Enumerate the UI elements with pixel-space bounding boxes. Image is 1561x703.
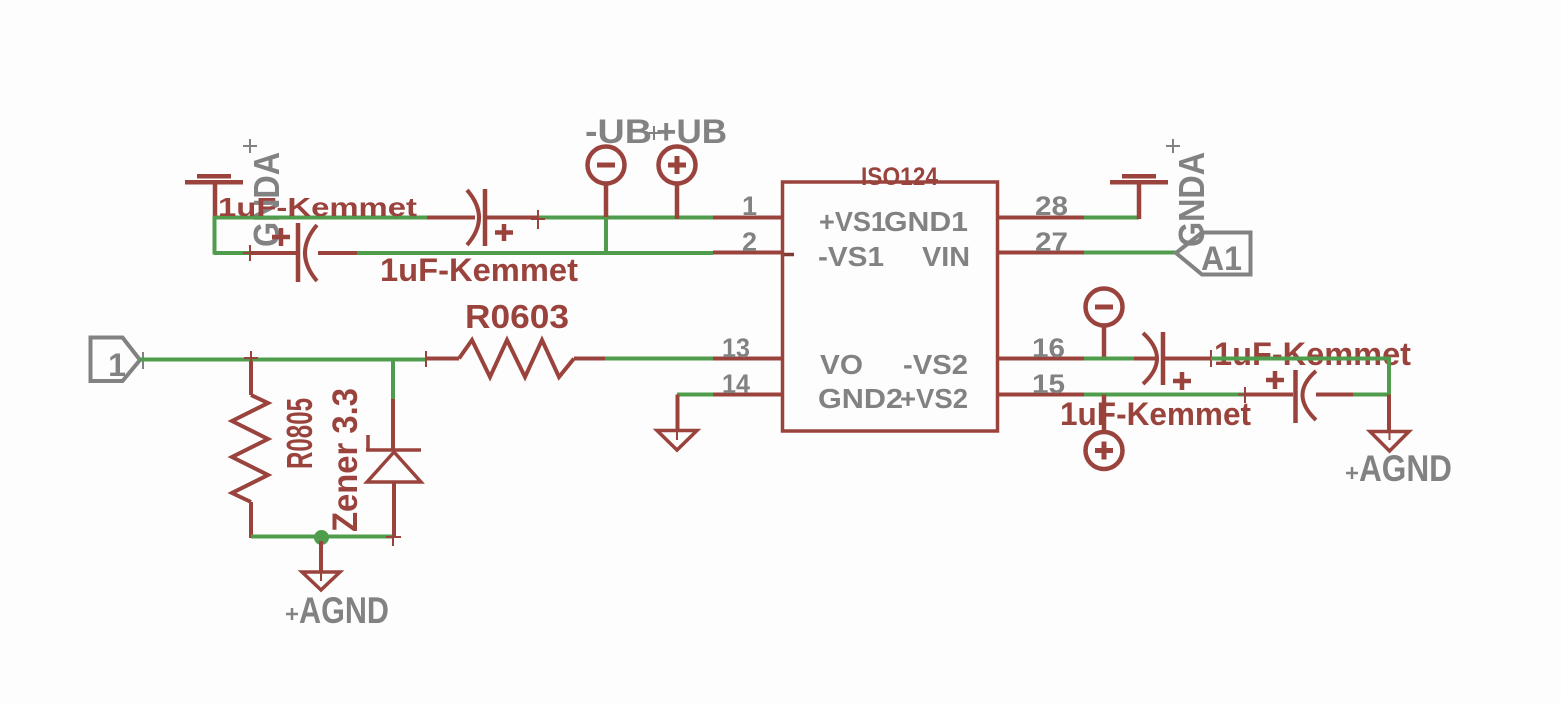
capacitor C2 origin cross	[243, 245, 257, 261]
supply plus symbol (right)	[1086, 395, 1123, 470]
capacitor C1 origin cross	[531, 210, 545, 229]
ground AGND left	[302, 541, 340, 590]
svg-text:14: 14	[722, 369, 750, 399]
wire bottom-left horizontal	[214, 251, 250, 255]
svg-text:AGND: AGND	[299, 590, 389, 631]
svg-text:1uF-Kemmet: 1uF-Kemmet	[218, 192, 417, 222]
svg-text:13: 13	[722, 333, 750, 363]
svg-text:1: 1	[742, 191, 757, 221]
svg-text:+VS1: +VS1	[819, 206, 886, 237]
supply +UB symbol	[659, 147, 696, 220]
supply -UB symbol	[588, 147, 625, 220]
svg-text:ISO124: ISO124	[861, 163, 938, 191]
svg-text:VIN: VIN	[922, 241, 970, 272]
pin 2 stub	[713, 251, 782, 255]
capacitor C4 origin cross	[1238, 387, 1252, 403]
GNDA left origin cross	[243, 139, 257, 153]
pin 16 stub	[998, 357, 1084, 361]
wire pin 14 short green	[677, 393, 713, 397]
AGND left origin cross	[286, 608, 298, 620]
op-amp U1 ISO124 body	[783, 182, 998, 431]
svg-text:2: 2	[742, 227, 757, 257]
input flag origin tick	[142, 352, 144, 369]
wire pin 16 green right	[1211, 357, 1391, 361]
R0805 origin cross	[244, 351, 258, 366]
input flag 1	[91, 338, 141, 382]
pin 27 stub	[998, 251, 1084, 255]
svg-text:1uF-Kemmet: 1uF-Kemmet	[1214, 336, 1411, 372]
svg-text:+UB: +UB	[656, 113, 727, 151]
zener origin cross	[386, 529, 401, 546]
wire pin 15 green left	[1084, 393, 1245, 397]
svg-text:-UB: -UB	[585, 113, 652, 151]
wire zener top vertical	[391, 358, 395, 400]
U1 origin dash on pin2 row	[784, 253, 794, 257]
svg-text:R0603: R0603	[465, 298, 569, 335]
wire -UB vertical	[604, 217, 608, 255]
R0603 origin cross	[425, 351, 427, 367]
output flag A1	[1176, 233, 1251, 275]
wire pin 27 to flag A1	[1084, 251, 1176, 255]
svg-text:AGND: AGND	[1359, 448, 1452, 489]
capacitor C1 (top, polarized)	[427, 189, 539, 246]
resistor R1 R0603	[426, 340, 605, 377]
AGND right origin cross	[1346, 467, 1358, 479]
capacitor C3 origin cross	[1204, 350, 1218, 367]
svg-text:1uF-Kemmet: 1uF-Kemmet	[1060, 396, 1251, 432]
svg-text:15: 15	[1032, 369, 1065, 399]
wire bottom (-VS1 net to pin 2)	[357, 251, 713, 255]
svg-text:-VS2: -VS2	[903, 349, 968, 380]
svg-text:R0805: R0805	[279, 398, 320, 469]
wire main input horizontal	[140, 358, 426, 362]
pin 1 stub	[713, 216, 782, 220]
pin 13 stub	[713, 357, 782, 361]
junction dot	[314, 530, 329, 545]
svg-text:+VS2: +VS2	[900, 383, 968, 414]
wire pin 16 green left	[1084, 357, 1134, 361]
capacitor C4 (bottom-right, polarized)	[1245, 370, 1353, 423]
svg-text:VO: VO	[820, 349, 863, 380]
wire R0603 to pin 13	[605, 357, 713, 361]
wire right vertical	[1387, 357, 1391, 397]
zener diode D1	[366, 399, 421, 538]
ground GNDA left symbol	[185, 174, 243, 219]
GNDA right origin cross	[1166, 139, 1180, 153]
ground GNDA right symbol	[1110, 174, 1168, 219]
svg-text:A1: A1	[1201, 240, 1242, 278]
svg-text:27: 27	[1035, 227, 1068, 257]
svg-text:1uF-Kemmet: 1uF-Kemmet	[380, 252, 578, 288]
capacitor C2 (bottom-left, polarized)	[250, 223, 357, 282]
wire pin 28 to GNDA	[1084, 216, 1139, 220]
wire left vertical	[213, 216, 217, 255]
pin 14 stub	[713, 393, 782, 397]
resistor R2 R0805 (vertical)	[232, 361, 268, 538]
supply origin cross	[647, 126, 661, 140]
pin 15 stub	[998, 393, 1084, 397]
svg-text:GND2: GND2	[818, 383, 903, 414]
wire top-left horizontal (GND net)	[215, 216, 427, 220]
pin 28 stub	[998, 216, 1084, 220]
svg-text:1: 1	[108, 347, 126, 383]
svg-text:-VS1: -VS1	[818, 241, 884, 272]
ground AGND right	[1370, 395, 1409, 452]
wire bottom AGND net	[251, 535, 393, 539]
capacitor C3 (top-right, polarized)	[1134, 332, 1211, 390]
ground GND2 at pin 14	[657, 395, 697, 451]
svg-text:28: 28	[1035, 191, 1068, 221]
wire pin 15 green right	[1353, 393, 1391, 397]
svg-text:GND1: GND1	[884, 206, 968, 237]
svg-text:16: 16	[1032, 333, 1065, 363]
svg-text:Zener 3.3: Zener 3.3	[326, 388, 365, 532]
wire top (+VS1 net to pin 1)	[539, 216, 713, 220]
supply minus symbol (right)	[1086, 289, 1123, 361]
